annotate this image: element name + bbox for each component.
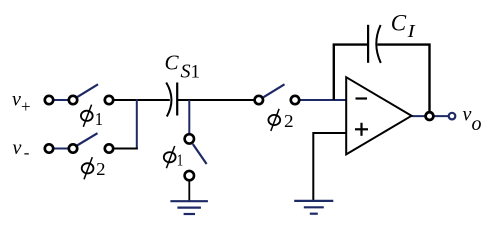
terminal circle v+ c [105, 96, 113, 104]
wire ground switch to ground 1 [188, 180, 190, 202]
svg-text:-: - [24, 143, 30, 162]
terminal circle v- a [45, 144, 53, 152]
svg-text:S1: S1 [181, 61, 201, 83]
svg-text:+: + [21, 97, 31, 116]
terminal circle v- c [105, 144, 113, 152]
terminal circle v- b [69, 144, 77, 152]
wire feedback right branch [377, 45, 429, 112]
switch phi1 arm (to ground) [193, 144, 207, 164]
terminal circle v+ a [45, 96, 53, 104]
svg-text:v: v [463, 104, 472, 126]
ground switch top circle [185, 134, 194, 143]
switch phi2 series arm [264, 84, 285, 97]
wire op-amp output to node [412, 115, 430, 117]
svg-text:I: I [406, 21, 415, 41]
svg-text:C: C [165, 51, 180, 75]
label phi2 (v- switch) [82, 157, 106, 179]
switch phi1 arm (v+ path) [77, 84, 98, 97]
wire capacitor CS1 to switch phi2 [177, 99, 255, 101]
op-amp plus sign [355, 128, 368, 130]
series switch phi2 circle b [291, 96, 299, 104]
wire output node to terminal vo [430, 115, 450, 117]
ground 2 [294, 200, 333, 202]
capacitor CI curved plate [376, 25, 381, 63]
output terminal circle vo [449, 113, 456, 120]
op-amp U1 [346, 77, 411, 154]
wire v+ node to capacitor CS1 [109, 99, 170, 101]
wire switch phi2 to op-amp inverting input [295, 99, 346, 101]
label phi1 (ground switch) [164, 146, 184, 170]
switch phi2 arm (v- path) [77, 133, 98, 145]
svg-text:v: v [13, 137, 22, 159]
capacitor CS1 curved plate [166, 83, 171, 117]
series switch phi2 circle a [255, 96, 263, 104]
wire v- branch riser to top node [136, 99, 138, 149]
ground switch bottom circle [185, 171, 194, 180]
output node circle [426, 112, 434, 120]
label phi1 (v+ switch) [81, 105, 103, 129]
wire v- branch horizontal [109, 148, 138, 150]
op-amp minus sign [356, 97, 368, 99]
svg-text:2: 2 [96, 159, 105, 179]
svg-text:1: 1 [95, 109, 103, 129]
capacitor CI straight plate [367, 25, 369, 63]
wire node to ground switch phi1 [188, 100, 190, 135]
svg-text:2: 2 [284, 111, 294, 131]
svg-text:v: v [12, 89, 21, 111]
terminal circle v+ b [69, 96, 77, 104]
ground 1 [170, 200, 208, 202]
label phi2 (series switch) [268, 109, 293, 131]
wire v- lead between switch terminals [49, 148, 73, 150]
wire feedback left branch [334, 45, 368, 100]
capacitor CS1 straight plate [176, 83, 178, 116]
wire v+ lead between switch terminals [49, 99, 73, 101]
wire op-amp noninverting input to ground 2 [313, 133, 346, 201]
svg-text:C: C [391, 10, 407, 35]
svg-text:1: 1 [177, 151, 184, 170]
svg-text:o: o [472, 113, 482, 135]
